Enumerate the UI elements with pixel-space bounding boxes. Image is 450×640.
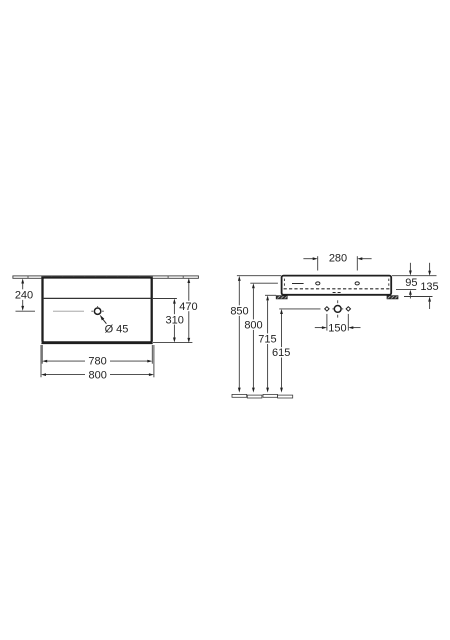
svg-text:95: 95: [405, 277, 417, 289]
svg-text:150: 150: [328, 322, 346, 334]
svg-text:470: 470: [179, 301, 197, 313]
svg-text:850: 850: [230, 306, 248, 318]
svg-text:715: 715: [258, 334, 276, 346]
svg-text:800: 800: [89, 370, 107, 382]
svg-text:Ø 45: Ø 45: [105, 324, 129, 336]
svg-text:310: 310: [166, 314, 184, 326]
svg-text:280: 280: [329, 252, 347, 264]
svg-text:800: 800: [244, 320, 262, 332]
svg-text:615: 615: [272, 347, 290, 359]
svg-text:240: 240: [15, 290, 33, 302]
svg-text:780: 780: [88, 356, 106, 368]
svg-text:135: 135: [420, 281, 438, 293]
